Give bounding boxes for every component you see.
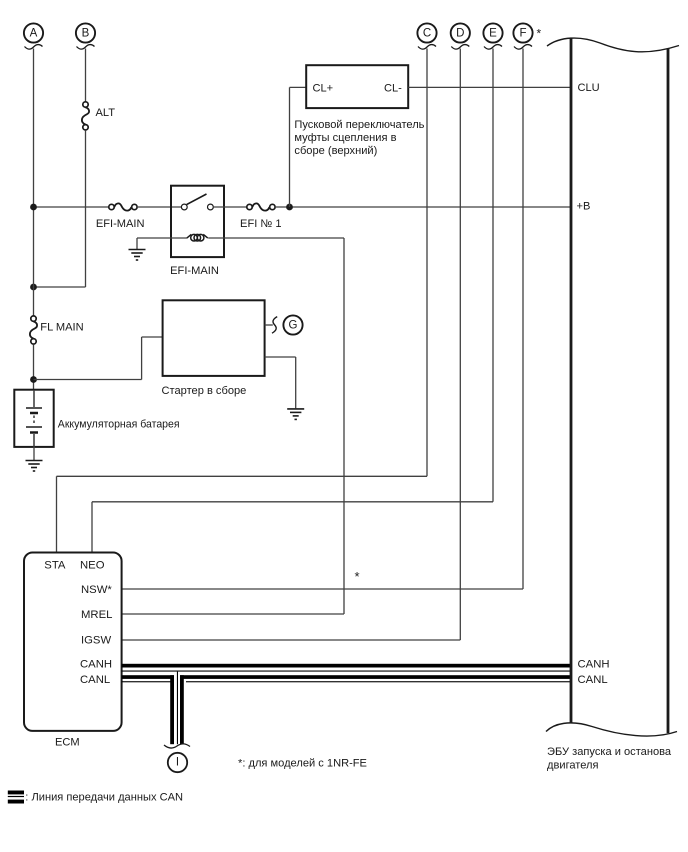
CAN bus CANH thick line bbox=[122, 664, 571, 668]
CAN branch thin bbox=[177, 672, 178, 745]
ground relay coil bbox=[129, 250, 146, 261]
wire E column bbox=[492, 49, 494, 502]
legend CAN line icon bbox=[8, 791, 24, 804]
CAN branch right thick bbox=[180, 675, 184, 744]
svg-text:CANH: CANH bbox=[80, 659, 112, 671]
wire MREL horizontal bbox=[122, 613, 344, 615]
wire into starter bbox=[142, 336, 163, 338]
relay switch contacts bbox=[181, 194, 213, 210]
svg-text:CL-: CL- bbox=[384, 83, 402, 95]
connector A bbox=[24, 23, 43, 49]
wire NEO riser bbox=[91, 502, 93, 553]
svg-text:Аккумуляторная батарея: Аккумуляторная батарея bbox=[58, 419, 180, 431]
svg-text:D: D bbox=[456, 28, 464, 40]
fuse FL MAIN bbox=[30, 316, 84, 344]
ECU band right edge bbox=[667, 49, 670, 733]
svg-text:STA: STA bbox=[44, 560, 66, 572]
wire A column mid bbox=[33, 207, 35, 316]
junction B-A bbox=[30, 284, 37, 291]
svg-text:*: * bbox=[537, 27, 542, 41]
svg-text:: Линия передачи данных CAN: : Линия передачи данных CAN bbox=[25, 792, 183, 804]
wire coil ground drop bbox=[136, 238, 138, 249]
starter assembly box bbox=[163, 300, 265, 376]
wire CL+ riser bbox=[289, 87, 291, 207]
wire NEO horizontal (E) bbox=[92, 501, 493, 503]
ground starter bbox=[287, 409, 304, 420]
wire B column lower bbox=[85, 130, 87, 287]
main +B wire right to ECU bbox=[275, 206, 571, 208]
svg-text:Стартер в сборе: Стартер в сборе bbox=[162, 385, 247, 397]
CAN bus CANL thin line right bbox=[186, 681, 571, 682]
wire IGSW horizontal (D) bbox=[122, 639, 461, 641]
ECU band left edge bbox=[570, 38, 573, 723]
wire MREL riser bbox=[343, 238, 345, 614]
svg-text:C: C bbox=[423, 28, 431, 40]
break before connector I bbox=[164, 744, 190, 748]
CAN bus CANL thick line left bbox=[122, 675, 174, 679]
svg-text:ECM: ECM bbox=[55, 737, 80, 749]
svg-text:*: для моделей с 1NR-FE: *: для моделей с 1NR-FE bbox=[238, 758, 367, 770]
svg-text:муфты сцепления в: муфты сцепления в bbox=[294, 132, 396, 144]
relay EFI-MAIN box bbox=[171, 186, 224, 257]
svg-text:+B: +B bbox=[577, 201, 591, 213]
relay coil bbox=[187, 234, 208, 241]
wire CL- to ECU (CLU) bbox=[408, 86, 571, 88]
svg-text:Пусковой переключатель: Пусковой переключатель bbox=[294, 119, 424, 131]
svg-text:*: * bbox=[355, 569, 360, 584]
CAN bus CANH thin line bbox=[122, 671, 571, 672]
svg-text:CANL: CANL bbox=[80, 674, 110, 686]
wire starter to G bbox=[265, 324, 273, 326]
wire starter to ground bbox=[265, 356, 296, 358]
svg-text:A: A bbox=[30, 28, 38, 40]
wire coil left bbox=[137, 237, 187, 239]
break before G bbox=[272, 317, 277, 334]
wire STA horizontal (C) bbox=[57, 475, 428, 477]
svg-text:CANL: CANL bbox=[578, 674, 608, 686]
wire NSW horizontal (F) bbox=[122, 588, 523, 590]
svg-text:I: I bbox=[176, 757, 179, 769]
CAN branch left thick bbox=[170, 675, 174, 744]
wire B elbow to A column bbox=[34, 286, 86, 288]
fuse ALT bbox=[82, 102, 115, 130]
wire coil right to MREL riser bbox=[208, 237, 344, 239]
svg-text:B: B bbox=[82, 28, 90, 40]
fuse EFI-MAIN bbox=[96, 203, 145, 230]
wire CL+ horizontal bbox=[290, 86, 307, 88]
svg-text:NEO: NEO bbox=[80, 560, 105, 572]
svg-text:ALT: ALT bbox=[96, 107, 116, 119]
wire fuse to relay bbox=[137, 206, 181, 208]
battery cells bbox=[26, 391, 42, 446]
wire C column bbox=[426, 49, 428, 477]
svg-text:сборе (верхний): сборе (верхний) bbox=[294, 145, 377, 157]
svg-text:NSW*: NSW* bbox=[81, 584, 112, 596]
connector C bbox=[417, 23, 436, 49]
wire STA riser bbox=[56, 476, 58, 553]
svg-text:CANH: CANH bbox=[578, 659, 610, 671]
connector B bbox=[76, 23, 95, 49]
svg-text:EFI-MAIN: EFI-MAIN bbox=[96, 218, 145, 230]
wire starter branch riser bbox=[141, 337, 143, 380]
wire starter branch horizontal bbox=[34, 379, 142, 381]
svg-text:F: F bbox=[519, 28, 526, 40]
junction battery/starter bbox=[30, 376, 37, 383]
wire A column upper bbox=[33, 49, 35, 208]
wire B column upper bbox=[85, 49, 87, 102]
junction CL riser bbox=[286, 204, 293, 211]
ECM box bbox=[24, 553, 122, 731]
connector F bbox=[513, 23, 532, 49]
wire battery to ground bbox=[33, 446, 35, 460]
connector G bbox=[283, 315, 302, 334]
CAN bus CANL thick line right bbox=[180, 675, 571, 679]
wire relay to EFI No1 fuse bbox=[213, 206, 247, 208]
wire D column bbox=[459, 49, 461, 641]
svg-text:E: E bbox=[489, 28, 497, 40]
svg-text:двигателя: двигателя bbox=[547, 760, 599, 772]
svg-text:CL+: CL+ bbox=[313, 83, 334, 95]
clutch start switch box bbox=[306, 65, 408, 108]
svg-text:EFI № 1: EFI № 1 bbox=[240, 218, 282, 230]
fuse EFI No 1 bbox=[240, 203, 282, 230]
connector D bbox=[451, 23, 470, 49]
svg-text:CLU: CLU bbox=[578, 82, 600, 94]
svg-text:G: G bbox=[289, 320, 298, 332]
ECU band bottom wave bbox=[546, 723, 677, 736]
junction A main bbox=[30, 204, 37, 211]
ground battery bbox=[26, 461, 43, 472]
wire F column bbox=[522, 49, 524, 590]
main +B wire left bbox=[34, 206, 109, 208]
connector E bbox=[483, 23, 502, 49]
wire A column to battery bbox=[33, 344, 35, 389]
svg-text:MREL: MREL bbox=[81, 609, 112, 621]
CAN bus CANL thin line left bbox=[122, 681, 174, 682]
svg-text:FL MAIN: FL MAIN bbox=[40, 322, 83, 334]
svg-text:ЭБУ запуска и останова: ЭБУ запуска и останова bbox=[547, 746, 672, 758]
connector I bbox=[168, 753, 187, 772]
svg-text:IGSW: IGSW bbox=[81, 635, 111, 647]
svg-text:EFI-MAIN: EFI-MAIN bbox=[170, 265, 219, 277]
ECU band top wave bbox=[547, 38, 679, 52]
battery box bbox=[14, 390, 53, 447]
